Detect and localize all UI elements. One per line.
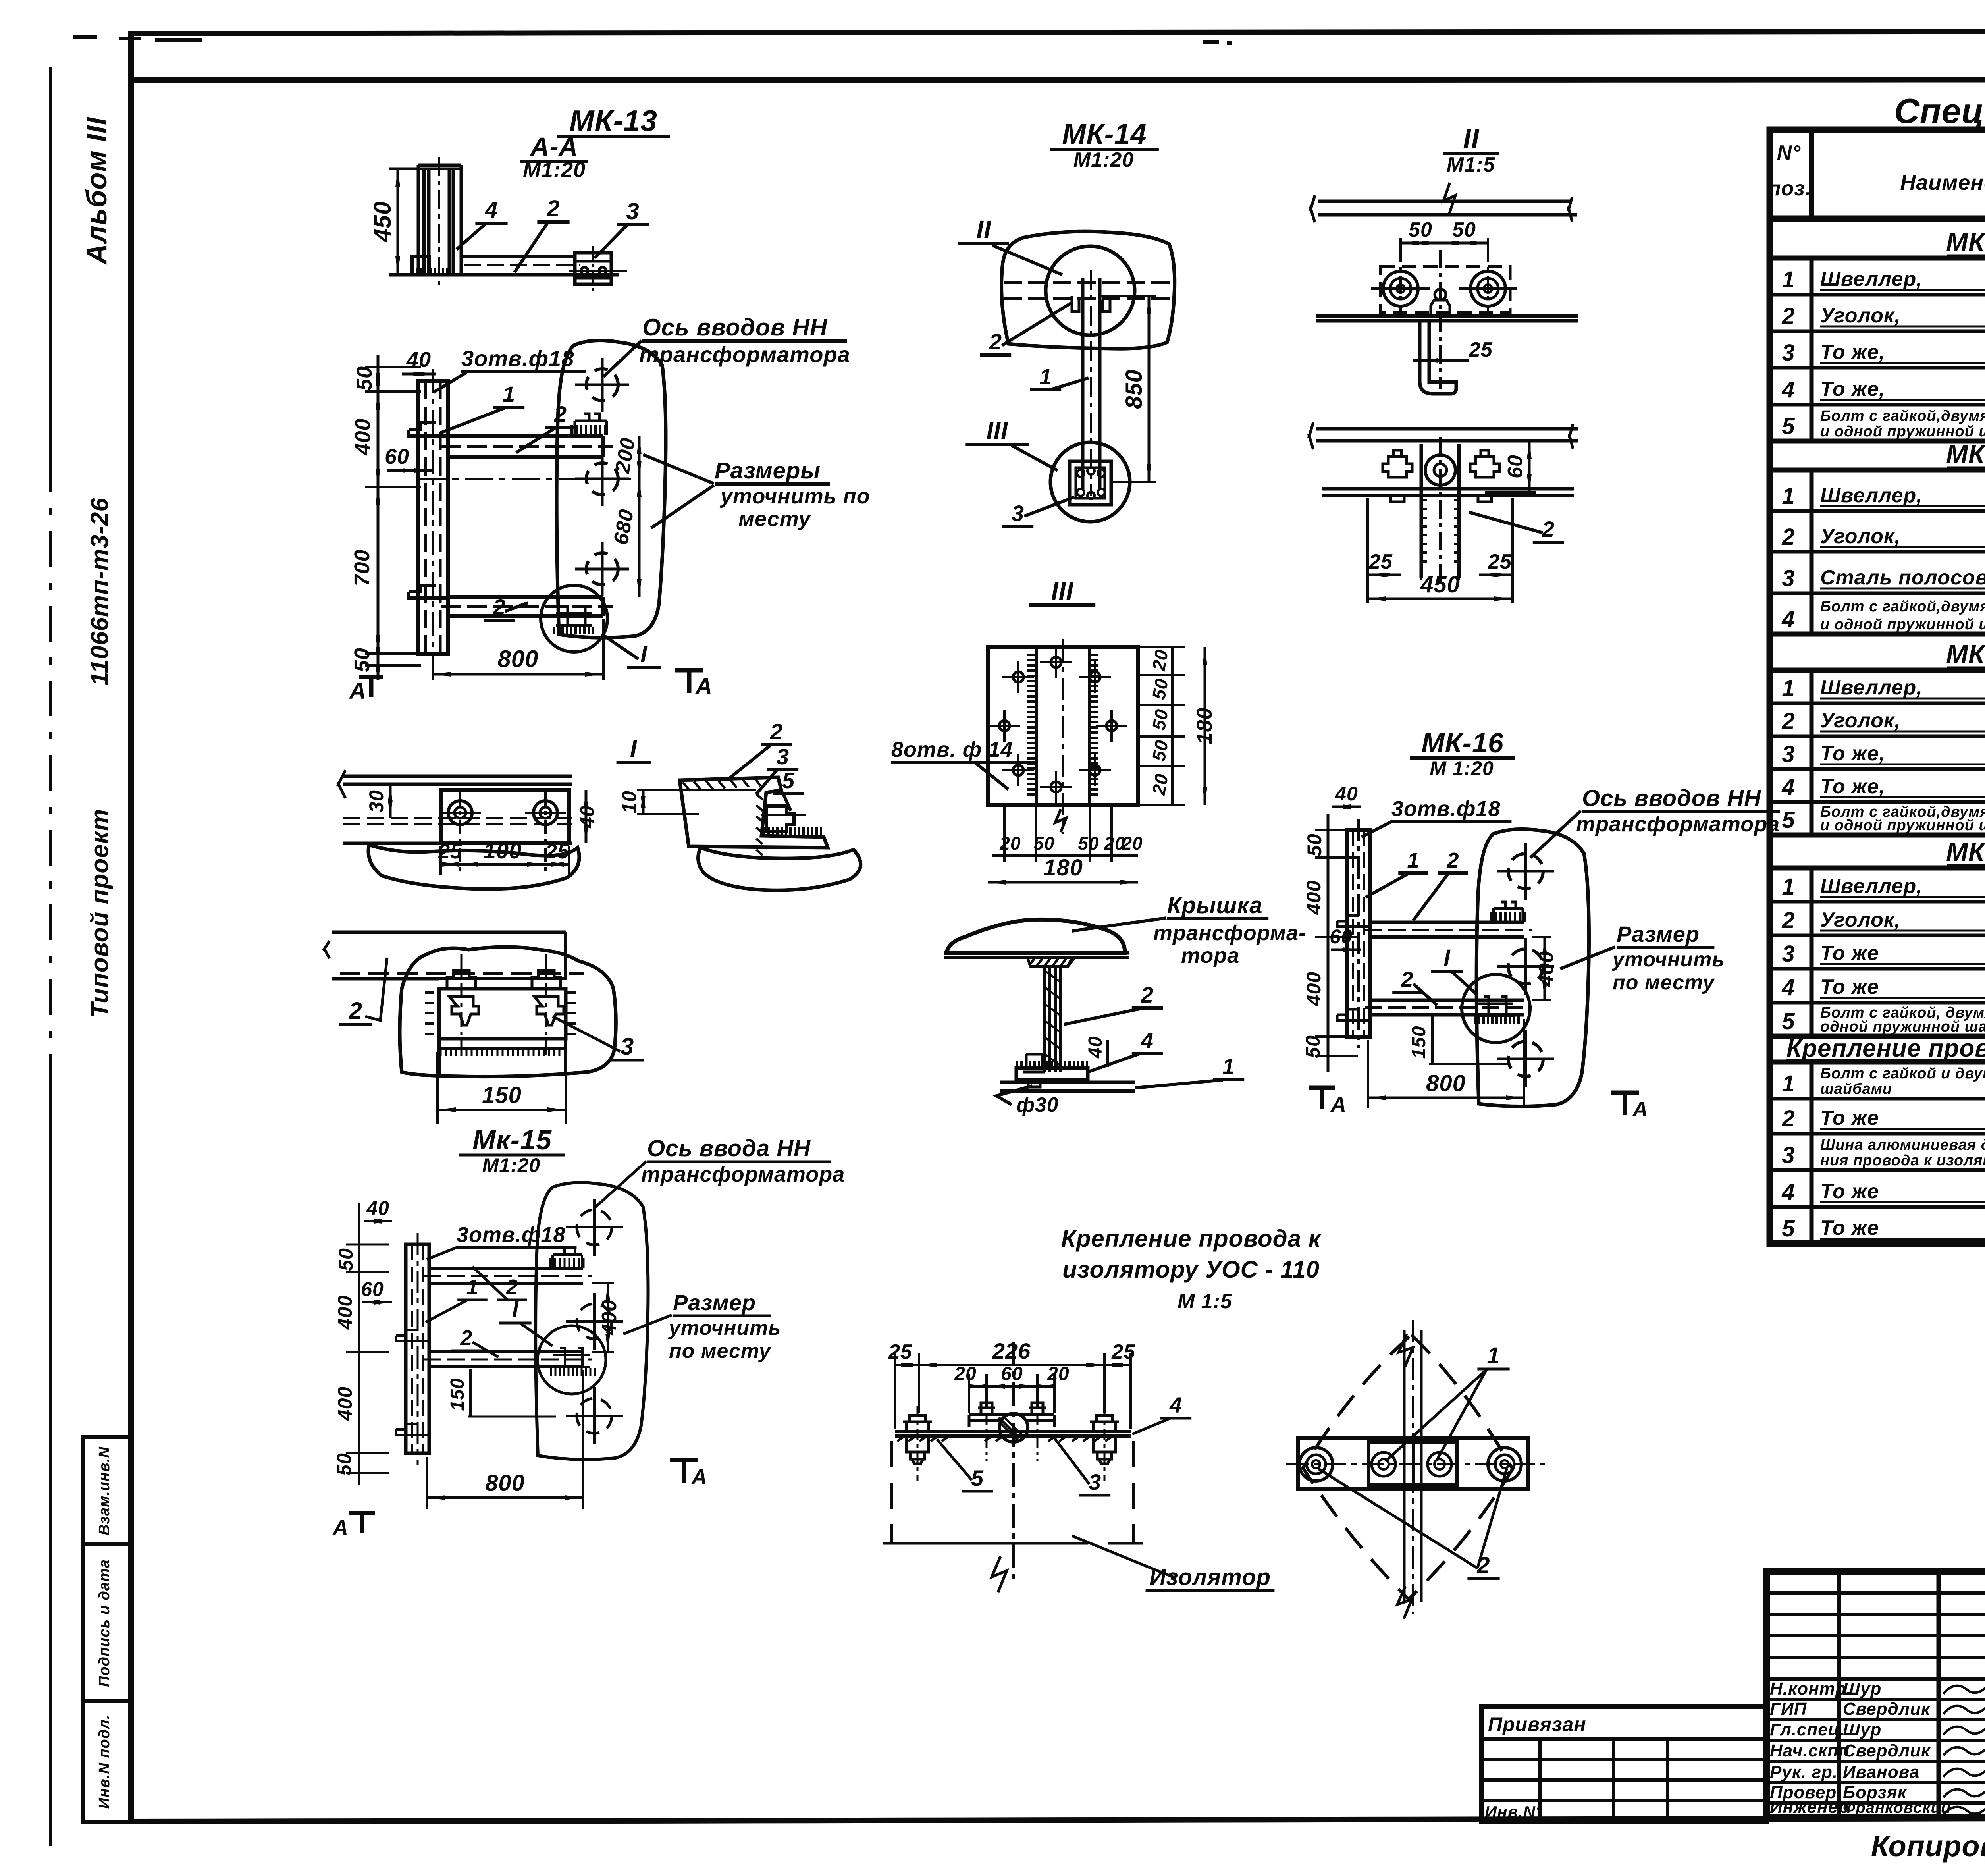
svg-text:3: 3	[1782, 941, 1795, 967]
svg-text:180: 180	[1043, 855, 1083, 881]
svg-text:шайбами: шайбами	[1820, 1081, 1892, 1097]
III plate right dim chain	[1171, 647, 1174, 805]
svg-text:3отв.ф18: 3отв.ф18	[457, 1223, 566, 1247]
svg-text:40: 40	[1085, 1036, 1106, 1059]
svg-text:4: 4	[1169, 1392, 1182, 1417]
svg-text:Гл.спец.: Гл.спец.	[1770, 1720, 1845, 1739]
svg-text:Взам.инв.N: Взам.инв.N	[96, 1446, 113, 1535]
svg-text:1: 1	[1407, 848, 1419, 872]
svg-text:Инв.N°: Инв.N°	[1485, 1803, 1543, 1821]
svg-text:1: 1	[1782, 1071, 1795, 1097]
svg-text:20: 20	[1148, 772, 1172, 797]
svg-text:2: 2	[349, 997, 362, 1024]
svg-text:2: 2	[460, 1326, 472, 1350]
svg-text:20: 20	[1121, 833, 1143, 854]
svg-text:4: 4	[1781, 377, 1795, 403]
III plate heading	[988, 576, 1216, 885]
svg-text:Н.контр.: Н.контр.	[1770, 1679, 1852, 1699]
svg-text:Швеллер,: Швеллер,	[1820, 268, 1923, 291]
МК-15 lower arm	[429, 1352, 583, 1367]
svg-text:То же,: То же,	[1820, 775, 1885, 798]
svg-text:Швеллер,: Швеллер,	[1820, 875, 1923, 898]
svg-text:МК-13: МК-13	[569, 104, 657, 137]
svg-text:трансформатора: трансформатора	[641, 1163, 845, 1186]
svg-text:50: 50	[353, 366, 376, 391]
dims 50 50	[1399, 238, 1402, 254]
svg-text:1: 1	[466, 1275, 478, 1299]
svg-text:Размеры: Размеры	[715, 458, 821, 484]
transformer cloud	[400, 947, 616, 1077]
svg-text:МК-15: МК-15	[1946, 639, 1985, 669]
bracket plate with serration	[439, 989, 566, 1039]
svg-text:М1:20: М1:20	[482, 1154, 541, 1176]
svg-text:3отв.ф18: 3отв.ф18	[461, 346, 574, 371]
svg-text:4: 4	[1141, 1028, 1154, 1053]
spec section band МК-13	[1770, 217, 1985, 222]
top band upper line	[128, 31, 1985, 33]
МК-13 vertical channel	[418, 381, 448, 654]
SPEC TABLE	[1768, 91, 1985, 1244]
detail I beam	[343, 776, 572, 784]
svg-text:1: 1	[1782, 267, 1795, 293]
upper break symbol on beam	[1443, 183, 1455, 214]
svg-text:3: 3	[1089, 1469, 1101, 1494]
МК-15 section marks	[349, 1513, 375, 1533]
svg-text:уточнить: уточнить	[668, 1317, 781, 1340]
svg-text:N°: N°	[1777, 141, 1801, 164]
МК-16 bushing circles	[1508, 854, 1543, 889]
svg-text:I: I	[1443, 945, 1451, 971]
central stud	[1431, 300, 1450, 316]
МК-15 transformer cloud	[536, 1182, 648, 1459]
svg-text:2: 2	[1781, 524, 1795, 550]
svg-text:Ось вводов НН: Ось вводов НН	[642, 314, 828, 341]
svg-text:МК-14: МК-14	[1062, 118, 1147, 150]
small clamp bolts	[978, 1403, 995, 1415]
break zigzag	[992, 1556, 1007, 1592]
svg-text:5: 5	[1782, 1008, 1795, 1034]
МК-15 dim 60	[362, 1301, 392, 1303]
svg-text:25: 25	[438, 840, 462, 863]
svg-text:50: 50	[1303, 833, 1326, 856]
МК-15 dim 150	[469, 1369, 472, 1417]
top registration dashes	[73, 37, 202, 40]
МК-15 title	[332, 1124, 845, 1540]
svg-text:50: 50	[1409, 218, 1432, 241]
МК-16 lower arm	[1370, 1000, 1524, 1015]
svg-text:5: 5	[1782, 807, 1795, 833]
svg-text:100: 100	[484, 838, 522, 863]
corner clamp detail	[618, 719, 1037, 890]
svg-text:Нач.скпп: Нач.скпп	[1770, 1741, 1850, 1760]
МК-14 circle III	[1050, 442, 1130, 522]
svg-text:4: 4	[484, 197, 498, 223]
МК-13 detail circle I	[541, 585, 607, 652]
dim 150	[436, 1052, 439, 1124]
svg-text:150: 150	[482, 1082, 522, 1108]
МК-13 title	[349, 104, 870, 704]
МК-16 dim 40	[1332, 806, 1361, 808]
МК-13 bushing axes dashed circles	[586, 369, 618, 401]
svg-text:25: 25	[1368, 550, 1393, 573]
svg-text:То же: То же	[1820, 1180, 1879, 1203]
svg-text:2: 2	[1781, 908, 1795, 933]
conductor circle hatched	[999, 1413, 1028, 1442]
svg-text:800: 800	[497, 646, 538, 672]
МК-14 vertical strap	[1083, 278, 1100, 490]
spec section band МК-14	[1770, 439, 1985, 444]
svg-text:50: 50	[335, 1248, 357, 1271]
МК-15 left dim chain	[358, 1203, 360, 1485]
foot bolt	[1023, 1054, 1045, 1087]
МК-13 upper clamp serration	[572, 425, 605, 435]
spec table outer border	[1770, 130, 1985, 1244]
svg-text:800: 800	[485, 1470, 525, 1496]
inner frame left	[128, 33, 134, 1822]
stem foot and beam	[1016, 1068, 1088, 1080]
plan view busbar dashed	[1404, 1330, 1421, 1602]
svg-text:5: 5	[1782, 413, 1795, 439]
svg-text:МК-16: МК-16	[1421, 727, 1504, 758]
МК-15 dim 40	[364, 1220, 392, 1222]
svg-text:А: А	[695, 673, 713, 699]
svg-text:60: 60	[361, 1278, 384, 1300]
svg-text:50: 50	[333, 1453, 355, 1476]
svg-text:трансформа-: трансформа-	[1153, 921, 1306, 945]
svg-text:1: 1	[1782, 874, 1795, 900]
spec table header grid	[1770, 216, 1985, 222]
МК-15 bushing circles	[577, 1210, 612, 1245]
svg-text:Размер: Размер	[673, 1290, 756, 1315]
svg-text:20: 20	[1047, 1363, 1069, 1384]
svg-text:Мк-15: Мк-15	[472, 1124, 552, 1155]
plan center plates	[1369, 1442, 1457, 1485]
А-А section: base foot	[412, 256, 430, 275]
detail I dim 30	[389, 784, 392, 818]
svg-text:2: 2	[770, 719, 783, 744]
svg-text:4: 4	[1781, 774, 1795, 800]
svg-text:5: 5	[1782, 1216, 1795, 1242]
МК-14 title	[958, 118, 1175, 526]
МК-16 channel brackets	[1337, 916, 1370, 927]
МК-14 transformer cloud top	[1002, 231, 1175, 349]
МК-14 dim 850	[1100, 295, 1156, 297]
svg-text:А: А	[1632, 1097, 1648, 1121]
svg-text:400: 400	[1303, 972, 1325, 1006]
svg-text:680: 680	[609, 507, 638, 546]
svg-text:1: 1	[1222, 1054, 1235, 1079]
МК-13 channel top angle bracket	[409, 422, 448, 436]
МК-14 circle II	[1046, 246, 1135, 335]
outer left thin line	[49, 67, 52, 457]
svg-text:50: 50	[1452, 218, 1476, 241]
svg-text:Болт с гайкой,двумя нормальным: Болт с гайкой,двумя нормальными	[1820, 598, 1985, 615]
svg-text:4: 4	[1781, 1179, 1795, 1205]
svg-text:2: 2	[493, 594, 506, 619]
svg-text:Наименование: Наименование	[1900, 171, 1985, 195]
III plate break mark	[1055, 809, 1066, 832]
svg-text:3: 3	[1782, 1142, 1795, 1168]
mushroom cap	[946, 920, 1125, 953]
svg-text:Уголок,: Уголок,	[1820, 709, 1901, 732]
svg-text:А-А: А-А	[530, 132, 578, 161]
svg-text:уточнить: уточнить	[1611, 948, 1725, 971]
А-А section: vertical channel post	[418, 165, 461, 275]
МК-15 bracket detail	[323, 932, 644, 1124]
III plate 180 bottom	[988, 881, 1138, 884]
svg-text:по месту: по месту	[669, 1340, 772, 1363]
svg-text:Привязан: Привязан	[1488, 1713, 1586, 1735]
TITLE BLOCK	[1482, 1518, 1985, 1863]
svg-text:III: III	[987, 417, 1008, 444]
МК-13 lower arm	[448, 597, 603, 616]
svg-text:А: А	[332, 1516, 349, 1540]
svg-text:То же: То же	[1820, 1107, 1879, 1130]
central vertical bar	[1421, 444, 1459, 578]
МК-16 dim 60	[1331, 949, 1361, 951]
svg-text:Подпись и дата: Подпись и дата	[96, 1559, 113, 1687]
svg-text:Болт с гайкой и двумя: Болт с гайкой и двумя	[1820, 1065, 1985, 1082]
svg-text:3: 3	[621, 1033, 634, 1060]
svg-text:1: 1	[1487, 1343, 1500, 1369]
svg-text:2: 2	[546, 196, 560, 222]
svg-text:А: А	[691, 1465, 707, 1489]
detail I clamp plate	[441, 790, 569, 843]
insulator dashed sides	[891, 1441, 1134, 1543]
svg-text:2: 2	[1446, 848, 1459, 872]
svg-text:Швеллер,: Швеллер,	[1820, 676, 1923, 699]
svg-text:40: 40	[406, 348, 431, 372]
plan bolts	[1299, 1448, 1333, 1481]
inner frame top	[128, 79, 1985, 80]
svg-text:по месту: по месту	[1613, 971, 1715, 994]
А-А section: dimension 450	[389, 168, 462, 170]
svg-text:180: 180	[1193, 707, 1216, 744]
dims 25 25 450	[1366, 498, 1369, 603]
svg-text:450: 450	[369, 201, 396, 242]
svg-text:50: 50	[1302, 1035, 1324, 1058]
inner frame bottom	[131, 1818, 1985, 1822]
МК-16 detail circle I	[1462, 974, 1530, 1043]
spec section band Крепление провода к изолятору УОС-110	[1770, 1034, 1985, 1039]
svg-text:50: 50	[1148, 738, 1172, 763]
svg-text:40: 40	[576, 805, 598, 829]
svg-text:400: 400	[1535, 951, 1558, 987]
svg-text:Крепление провода к: Крепление провода к	[1061, 1225, 1322, 1252]
svg-text:Уголок,: Уголок,	[1820, 908, 1901, 931]
svg-text:400: 400	[1303, 880, 1325, 915]
svg-text:60: 60	[1504, 455, 1527, 478]
svg-text:1: 1	[1782, 675, 1795, 701]
two bolts with studs	[447, 970, 476, 989]
svg-text:МК-13: МК-13	[1946, 227, 1985, 256]
lower plate	[1322, 489, 1574, 496]
МК-16 dim 800	[1367, 1040, 1369, 1108]
spec section band МК-15	[1770, 632, 1985, 637]
upper view beam	[1318, 201, 1577, 215]
svg-text:Болт с гайкой,двумя нормальным: Болт с гайкой,двумя нормальными	[1820, 408, 1985, 424]
МК-13 main view: left dimension chain	[377, 355, 380, 680]
МК-15 dim 800	[426, 1457, 428, 1509]
svg-text:50: 50	[1033, 833, 1054, 854]
МК-16 section marks	[1309, 1088, 1335, 1109]
clamp foot serration	[764, 827, 821, 835]
МК-16 upper arm	[1370, 922, 1524, 937]
svg-text:I: I	[640, 641, 648, 667]
МК-16 dim 150	[1431, 1016, 1434, 1064]
svg-text:2: 2	[1401, 968, 1413, 991]
detail I dim 40	[585, 790, 588, 843]
МК-14 hidden beam dashed lines	[1004, 281, 1174, 284]
two bolts top view	[1383, 271, 1418, 306]
МК-16 title	[1302, 727, 1780, 1121]
svg-text:То же,: То же,	[1820, 378, 1885, 401]
svg-text:То же: То же	[1820, 1217, 1879, 1240]
svg-text:450: 450	[1420, 572, 1460, 598]
front view dims	[894, 1353, 896, 1429]
svg-text:850: 850	[1121, 369, 1147, 409]
detail I bolts	[448, 801, 472, 825]
svg-text:То же,: То же,	[1820, 341, 1885, 364]
Крепление провода header	[883, 1225, 1548, 1619]
svg-text:1: 1	[503, 382, 515, 407]
svg-text:М1:20: М1:20	[523, 158, 586, 182]
svg-text:Свердлик: Свердлик	[1843, 1741, 1931, 1760]
svg-text:Типовой проект: Типовой проект	[86, 809, 114, 1018]
svg-text:10: 10	[618, 791, 640, 814]
svg-text:2: 2	[505, 1275, 518, 1299]
clamp bolt	[766, 806, 794, 831]
svg-text:Альбом III: Альбом III	[81, 116, 113, 265]
svg-text:200: 200	[611, 436, 640, 475]
МК-16 vertical channel	[1347, 830, 1370, 1037]
svg-text:60: 60	[1330, 925, 1353, 948]
I-beam stem	[1044, 966, 1061, 1072]
svg-text:1: 1	[1782, 483, 1795, 509]
МК-13 center axis line	[418, 478, 631, 480]
hatch under bar	[897, 1436, 1112, 1441]
III plate bolt crosses	[1013, 672, 1023, 682]
svg-text:4: 4	[1781, 975, 1795, 1001]
transformer cover drawing	[944, 893, 1306, 1116]
left bottom stamp column	[83, 1437, 131, 1822]
svg-text:Спецификация: Спецификация	[1894, 91, 1985, 131]
МК-16 left dim chain	[1327, 814, 1330, 1072]
svg-text:400: 400	[334, 1386, 356, 1421]
svg-text:20: 20	[954, 1363, 976, 1384]
svg-text:М 1:5: М 1:5	[1178, 1290, 1232, 1313]
МК-13 dim 800	[432, 659, 434, 680]
svg-text:3: 3	[1012, 501, 1024, 526]
svg-text:III: III	[1051, 576, 1074, 605]
svg-text:50: 50	[1148, 677, 1172, 701]
svg-text:МК-14: МК-14	[1946, 439, 1985, 469]
clamp angled flange	[680, 777, 828, 848]
МК-15 channel brackets	[396, 1330, 429, 1341]
МК-13 dim 60	[387, 469, 433, 472]
Привязан block	[1482, 1706, 1767, 1822]
svg-text:25: 25	[1488, 550, 1512, 573]
svg-text:25: 25	[545, 840, 569, 863]
signature squiggles column	[1943, 1681, 1985, 1694]
svg-text:II: II	[976, 215, 991, 244]
outer bolts	[903, 1415, 932, 1431]
detail I dims 25 100 25	[439, 846, 442, 875]
svg-text:800: 800	[1426, 1070, 1466, 1096]
МК-13 upper arm	[448, 436, 603, 457]
svg-text:400: 400	[598, 1300, 621, 1336]
svg-text:трансформатора: трансформатора	[639, 342, 850, 367]
svg-text:3: 3	[626, 199, 639, 224]
front view main bar	[895, 1431, 1131, 1436]
svg-text:Сталь полосовая,: Сталь полосовая,	[1820, 566, 1985, 589]
svg-text:3отв.ф18: 3отв.ф18	[1391, 797, 1501, 821]
svg-text:25: 25	[1469, 338, 1493, 361]
svg-text:М 1:20: М 1:20	[1430, 757, 1494, 779]
dashed plate rect	[1380, 266, 1510, 312]
svg-text:М1:5: М1:5	[1447, 153, 1495, 176]
svg-text:Размер: Размер	[1617, 922, 1700, 947]
svg-text:Свердлик: Свердлик	[1843, 1699, 1931, 1719]
svg-text:50: 50	[1148, 708, 1172, 732]
svg-text:60: 60	[385, 445, 409, 469]
МК-16 transformer cloud	[1476, 829, 1589, 1106]
svg-text:2: 2	[554, 401, 567, 426]
svg-text:ния провода к изолятору: ния провода к изолятору	[1820, 1152, 1985, 1169]
svg-text:Ось вводов НН: Ось вводов НН	[1582, 785, 1761, 811]
svg-text:8отв. ф 14: 8отв. ф 14	[891, 738, 1013, 762]
svg-text:150: 150	[447, 1378, 468, 1411]
МК-13 channel bottom angle bracket	[409, 585, 448, 598]
svg-text:1: 1	[1039, 364, 1052, 389]
svg-text:400: 400	[351, 418, 375, 455]
LEFT-MARGIN rotated captions	[81, 116, 114, 1018]
svg-text:Шина алюминиевая для крепле-: Шина алюминиевая для крепле-	[1820, 1137, 1985, 1153]
А-А section: horizontal arm	[461, 255, 575, 258]
svg-text:Шур: Шур	[1843, 1720, 1881, 1739]
МК-13 section mark А left	[359, 677, 383, 697]
svg-text:Крепление провода к изолято: Крепление провода к изолятору УОС-110	[1786, 1035, 1985, 1062]
svg-text:30: 30	[365, 790, 387, 813]
lower view beam	[1316, 429, 1578, 441]
svg-text:700: 700	[350, 549, 374, 586]
svg-text:2: 2	[1781, 708, 1795, 734]
plan view clamp bar	[1298, 1438, 1528, 1489]
МК-13 transformer outline cloud	[557, 341, 666, 638]
spec section band МК-16	[1770, 833, 1985, 838]
svg-text:Франковский: Франковский	[1843, 1799, 1951, 1816]
МК-15 detail circle I	[538, 1326, 606, 1394]
svg-text:МК-16: МК-16	[1946, 837, 1985, 866]
svg-text:II: II	[1463, 123, 1480, 154]
svg-text:25: 25	[1111, 1340, 1135, 1363]
central bolt circle	[1425, 455, 1455, 485]
svg-text:50: 50	[1078, 833, 1099, 854]
svg-text:То же,: То же,	[1820, 742, 1885, 765]
svg-text:226: 226	[992, 1338, 1031, 1363]
svg-text:и одной пружинной шайбами, ком: и одной пружинной шайбами, компл.	[1820, 616, 1985, 633]
detail I heading	[337, 735, 651, 889]
svg-text:Уголок,: Уголок,	[1820, 304, 1901, 327]
svg-text:60: 60	[1001, 1363, 1023, 1384]
beam with dashed hidden line	[332, 932, 566, 979]
svg-text:150: 150	[1409, 1026, 1430, 1059]
svg-text:Копировал: Слуцкая: Копировал: Слуцкая	[1871, 1830, 1985, 1863]
МК-15 dim 400	[592, 1282, 614, 1284]
signature grid	[1837, 1571, 1841, 1818]
svg-text:Изолятор: Изолятор	[1149, 1564, 1271, 1590]
svg-text:и одной пружинной шайбами, ком: и одной пружинной шайбами, компл.	[1820, 817, 1985, 834]
